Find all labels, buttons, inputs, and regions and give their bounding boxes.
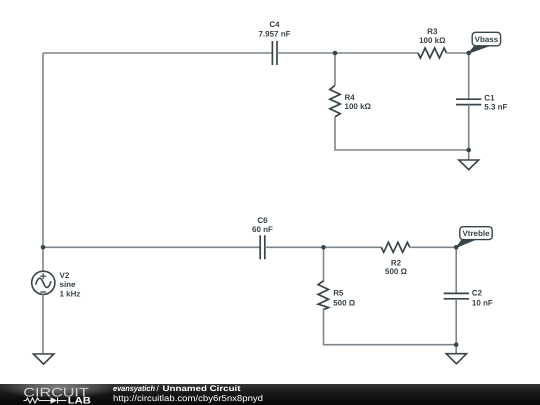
svg-text:sine: sine [60, 280, 77, 289]
wire: C1 bottom plate to ground junction [468, 105, 470, 150]
svg-text:500 Ω: 500 Ω [385, 267, 408, 276]
wire: C6 right plate to R2 left [265, 246, 382, 248]
node Vbass flag [472, 32, 500, 46]
svg-text:R2: R2 [391, 258, 402, 267]
value label R3 100 kOhm [419, 27, 446, 45]
svg-text:500 Ω: 500 Ω [333, 299, 356, 308]
value label C1 5.3 nF [484, 94, 507, 112]
node Vtreble flag [460, 227, 492, 240]
node Vtreble junction dot [454, 245, 459, 250]
svg-text:LAB: LAB [68, 396, 91, 405]
svg-text:R5: R5 [333, 289, 344, 298]
resistor R5 [318, 281, 328, 310]
svg-text:Vbass: Vbass [475, 35, 499, 44]
wire: stub to ground 3 [455, 345, 457, 354]
wire: node Vtreble down to C2 top plate [455, 247, 457, 293]
svg-text:1 kHz: 1 kHz [60, 290, 81, 299]
wire: C4 right plate to R3 left [277, 52, 418, 54]
wire: R2 right to node Vtreble [410, 246, 456, 248]
value label R2 500 Ohm [385, 258, 408, 276]
svg-text:Vtreble: Vtreble [462, 229, 490, 238]
svg-text:7.957 nF: 7.957 nF [258, 29, 290, 38]
wire: branch down from junction to R4 top [334, 53, 336, 85]
value label R5 500 Ohm [333, 289, 356, 308]
capacitor C2 [444, 293, 469, 298]
svg-text:10 nF: 10 nF [472, 299, 493, 308]
svg-text:Unnamed Circuit: Unnamed Circuit [163, 384, 241, 393]
resistor R2 [381, 242, 410, 252]
capacitor C4 [272, 41, 277, 65]
value label V2 sine 1 kHz [60, 271, 81, 299]
capacitor C6 [260, 235, 265, 259]
ground (top section) [459, 160, 479, 170]
svg-text:60 nF: 60 nF [252, 225, 273, 234]
ground (source) [33, 354, 53, 364]
svg-text:C1: C1 [484, 94, 495, 103]
wire: node Vbass down to C1 top plate [468, 53, 470, 99]
wire: R4 bottom to ground rail corner [335, 117, 469, 150]
wire: C2 bottom plate to ground junction [455, 299, 457, 345]
value label C6 60 nF [252, 216, 273, 234]
junction at R5 branch [321, 245, 326, 250]
value label C4 7.957 nF [258, 20, 290, 38]
node Vtreble flag pointer [456, 239, 475, 247]
wire: top rail from left corner to C4 left plate [43, 52, 272, 54]
svg-text:V2: V2 [60, 271, 70, 280]
junction at R4 branch [333, 51, 338, 56]
resistor R3 [418, 48, 447, 58]
wire: stub to ground 1 [468, 150, 470, 160]
wire: V2 bottom to ground 2 [42, 294, 44, 354]
svg-text:100 kΩ: 100 kΩ [345, 102, 372, 111]
svg-text:C2: C2 [472, 289, 483, 298]
node Vbass flag pointer [469, 46, 490, 54]
wire: R3 right to node Vbass [447, 52, 469, 54]
svg-text:http://circuitlab.com/cby6r5nx: http://circuitlab.com/cby6r5nx8pnyd [113, 393, 263, 403]
value label C2 10 nF [472, 289, 493, 308]
wire: node A down to V2 top [42, 247, 44, 271]
wire: R5 bottom to bottom ground rail [324, 309, 457, 344]
wire: left rail vertical from corner down to node A [42, 53, 44, 247]
svg-text:100 kΩ: 100 kΩ [419, 36, 446, 45]
svg-text:R4: R4 [345, 93, 356, 102]
voltage source V2 [32, 271, 55, 294]
svg-text:evansyatich: evansyatich [113, 384, 155, 393]
svg-text:C4: C4 [269, 20, 280, 29]
resistor R4 [330, 85, 340, 117]
node Vbass junction dot [466, 51, 471, 56]
svg-text:5.3 nF: 5.3 nF [484, 102, 507, 111]
logo resistor-diode glyph [24, 397, 67, 403]
wire: bottom rail from node A to C6 left plate [43, 246, 260, 248]
junction at C1 / rail / ground [466, 148, 471, 153]
svg-text:R3: R3 [427, 27, 438, 36]
junction at C2 / rail / ground [454, 342, 459, 347]
ground (bottom section) [446, 354, 466, 364]
junction node A (left rail to bottom section) [41, 245, 46, 250]
wire: branch down from junction to R5 top [323, 247, 325, 282]
capacitor C1 [456, 99, 481, 104]
value label R4 100 kOhm [345, 93, 372, 111]
footer bar [0, 384, 540, 405]
